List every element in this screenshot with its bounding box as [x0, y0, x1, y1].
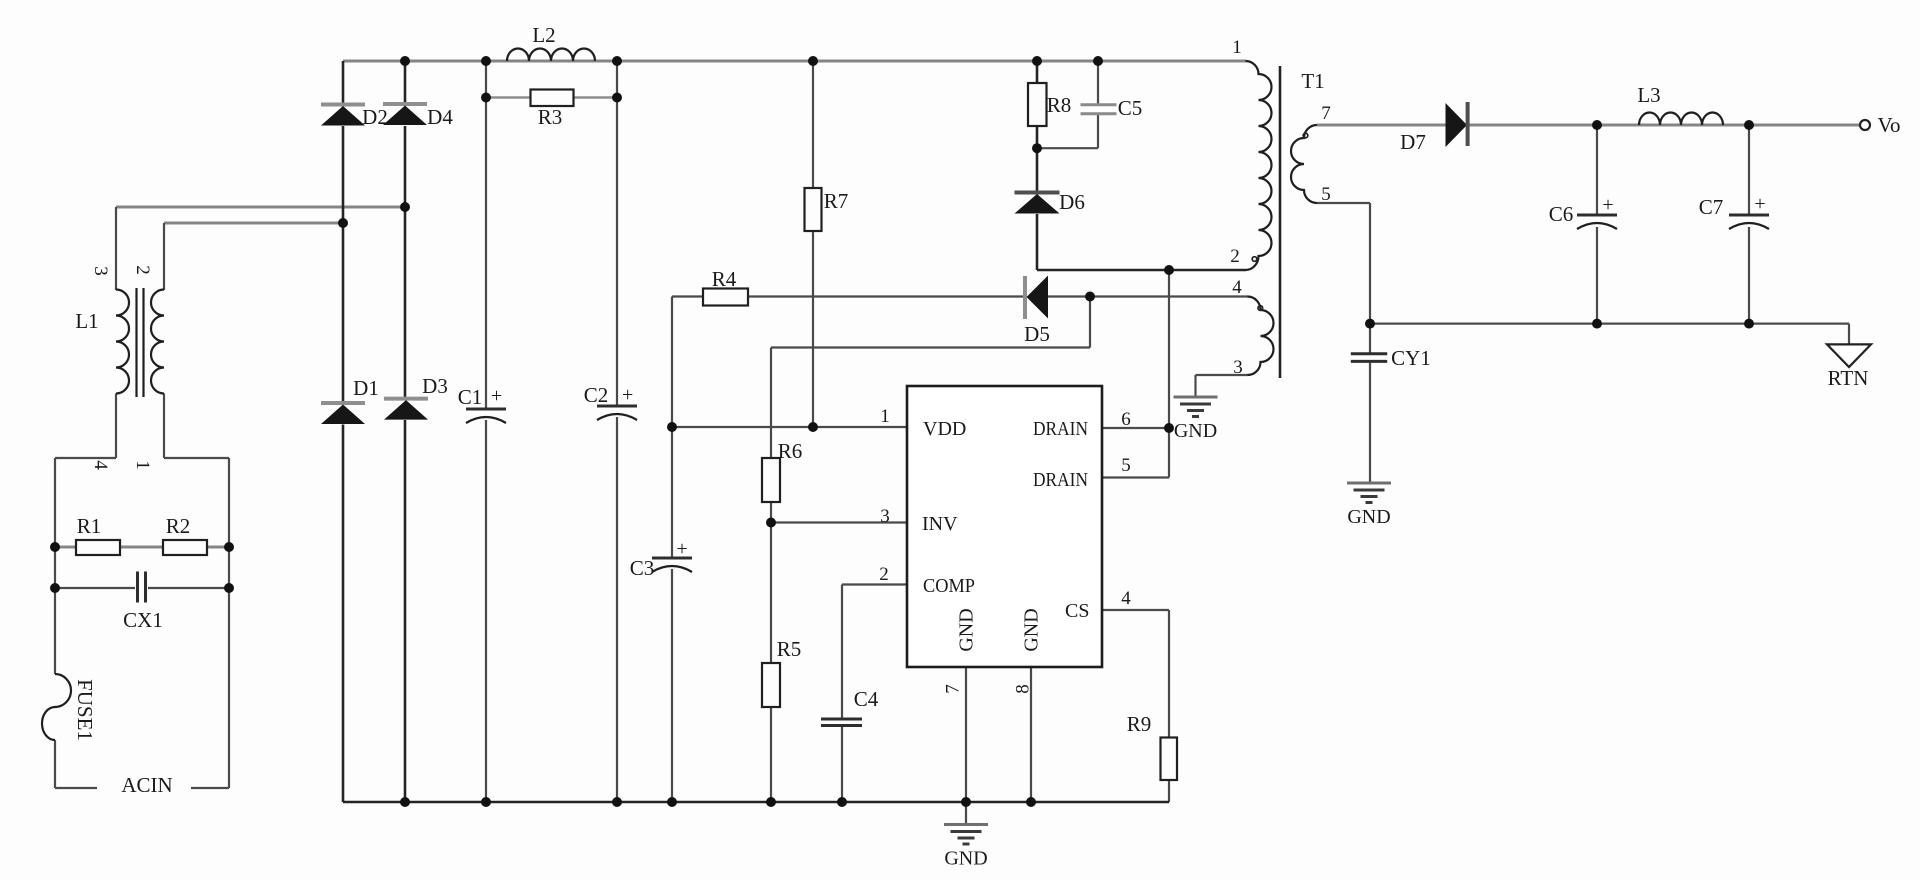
svg-text:L2: L2	[532, 23, 555, 47]
svg-text:T1: T1	[1301, 69, 1324, 93]
svg-text:4: 4	[1121, 588, 1131, 609]
svg-text:C2: C2	[584, 383, 609, 407]
svg-text:2: 2	[879, 564, 889, 585]
svg-text:2: 2	[1230, 246, 1240, 267]
svg-text:+: +	[622, 384, 633, 406]
svg-text:R1: R1	[77, 514, 102, 538]
svg-text:D7: D7	[1400, 130, 1426, 154]
svg-text:R3: R3	[538, 105, 563, 129]
svg-text:D1: D1	[353, 376, 379, 400]
svg-text:RTN: RTN	[1828, 366, 1869, 390]
svg-text:+: +	[676, 538, 687, 560]
svg-text:D3: D3	[422, 374, 448, 398]
svg-text:D6: D6	[1059, 190, 1085, 214]
svg-text:DRAIN: DRAIN	[1033, 469, 1088, 491]
svg-text:4: 4	[1232, 277, 1242, 298]
svg-text:1: 1	[132, 460, 153, 470]
svg-text:6: 6	[1121, 409, 1131, 430]
svg-text:C3: C3	[630, 556, 655, 580]
svg-text:3: 3	[90, 266, 111, 276]
svg-text:R9: R9	[1127, 712, 1152, 736]
svg-text:R6: R6	[778, 439, 803, 463]
svg-text:1: 1	[1232, 37, 1242, 58]
svg-text:R4: R4	[712, 267, 737, 291]
svg-text:D5: D5	[1024, 322, 1050, 346]
svg-text:R5: R5	[777, 637, 802, 661]
svg-text:CS: CS	[1065, 600, 1089, 622]
svg-text:CX1: CX1	[123, 608, 163, 632]
svg-text:1: 1	[880, 406, 890, 427]
svg-text:R2: R2	[166, 514, 191, 538]
svg-text:L1: L1	[75, 309, 98, 333]
svg-text:5: 5	[1321, 184, 1331, 205]
svg-text:D4: D4	[427, 105, 453, 129]
svg-text:D2: D2	[362, 105, 388, 129]
svg-text:ACIN: ACIN	[121, 773, 172, 797]
svg-text:C1: C1	[458, 385, 483, 409]
svg-text:VDD: VDD	[923, 418, 966, 440]
svg-text:3: 3	[1233, 357, 1243, 378]
svg-text:7: 7	[943, 684, 964, 694]
svg-text:COMP: COMP	[923, 575, 975, 597]
svg-text:GND: GND	[956, 608, 978, 651]
svg-text:+: +	[1754, 193, 1765, 215]
svg-text:CY1: CY1	[1391, 346, 1431, 370]
svg-text:C4: C4	[854, 687, 879, 711]
svg-text:+: +	[491, 385, 502, 407]
svg-text:R7: R7	[824, 189, 849, 213]
svg-text:4: 4	[90, 460, 111, 470]
svg-text:C7: C7	[1699, 195, 1724, 219]
svg-text:C6: C6	[1549, 202, 1574, 226]
svg-text:L3: L3	[1637, 83, 1660, 107]
svg-text:5: 5	[1121, 455, 1131, 476]
svg-text:DRAIN: DRAIN	[1033, 418, 1088, 440]
svg-text:8: 8	[1013, 684, 1034, 694]
svg-text:Vo: Vo	[1878, 113, 1901, 137]
svg-text:3: 3	[880, 506, 890, 527]
svg-text:FUSE1: FUSE1	[73, 679, 97, 741]
svg-text:GND: GND	[944, 848, 987, 870]
svg-text:C5: C5	[1118, 96, 1143, 120]
svg-text:+: +	[1602, 194, 1613, 216]
svg-text:GND: GND	[1347, 506, 1390, 528]
svg-text:R8: R8	[1047, 93, 1072, 117]
svg-text:2: 2	[132, 265, 153, 275]
svg-text:INV: INV	[922, 513, 958, 535]
svg-text:7: 7	[1321, 103, 1331, 124]
svg-text:GND: GND	[1021, 608, 1043, 651]
svg-text:GND: GND	[1174, 420, 1217, 442]
